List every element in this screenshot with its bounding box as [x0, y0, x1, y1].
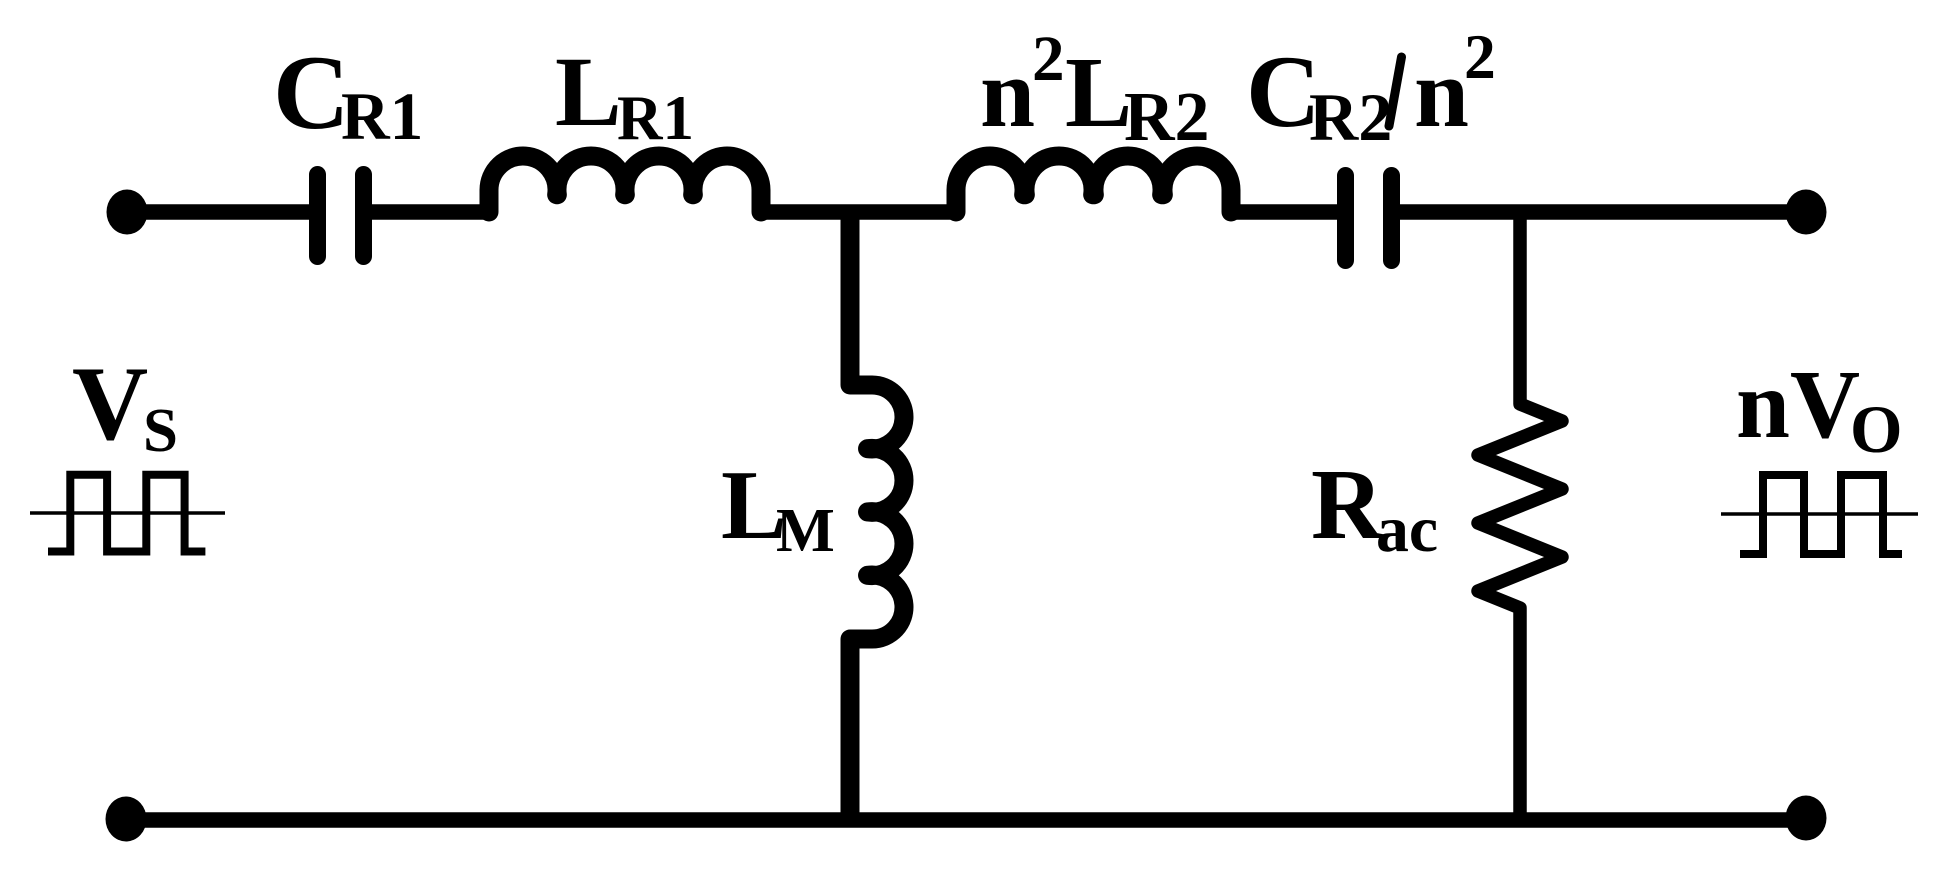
svg-text:O: O: [1850, 392, 1903, 467]
capacitor CR1 right plate: [355, 175, 372, 257]
svg-text:R2: R2: [1124, 79, 1210, 156]
label slash of CR2/n2: [1389, 57, 1402, 126]
capacitor CR2/n2 right plate: [1383, 176, 1400, 261]
svg-text:2: 2: [1032, 23, 1065, 95]
terminal dot top-left: [107, 190, 148, 235]
wire top rail: LR1 to n2LR2 through node A: [761, 204, 956, 220]
svg-text:nV: nV: [1736, 351, 1860, 458]
terminal dot top-right: [1786, 190, 1827, 235]
wire bottom rail: [126, 812, 1806, 828]
wire top rail: CR1 to LR1: [372, 204, 489, 220]
resistor Rac with leads from node B to bottom rail: [1478, 212, 1562, 818]
svg-text:ac: ac: [1376, 493, 1438, 566]
svg-text:M: M: [776, 496, 835, 565]
svg-text:S: S: [143, 395, 178, 465]
nVO square-wave symbol: [1740, 475, 1902, 554]
terminal dot bottom-right: [1786, 796, 1827, 841]
wire top rail: CR2/n2 to right terminal through node B: [1400, 204, 1806, 220]
svg-text:n: n: [980, 39, 1035, 148]
capacitor CR1 left plate: [309, 175, 326, 257]
svg-text:R1: R1: [341, 79, 423, 154]
inductor LR1: [489, 156, 761, 212]
inductor n2LR2: [956, 156, 1231, 212]
svg-text:2: 2: [1464, 21, 1496, 92]
capacitor CR2/n2 left plate: [1337, 176, 1354, 261]
svg-text:L: L: [1065, 36, 1132, 148]
svg-text:C: C: [273, 33, 350, 151]
svg-text:R2: R2: [1309, 79, 1392, 155]
svg-text:R1: R1: [617, 83, 694, 153]
inductor LM with leads from node A to bottom rail: [850, 214, 904, 818]
VS square-wave symbol: [48, 475, 205, 552]
svg-text:L: L: [555, 36, 622, 147]
terminal dot bottom-left: [106, 797, 147, 842]
nVO square-wave axis line: [1721, 512, 1918, 516]
svg-text:R: R: [1311, 449, 1385, 560]
svg-text:n: n: [1414, 39, 1469, 148]
wire top rail: left terminal to CR1: [127, 204, 309, 220]
VS square-wave axis line: [30, 511, 225, 515]
wire top rail: n2LR2 to CR2/n2: [1231, 204, 1337, 220]
svg-text:V: V: [72, 345, 148, 462]
